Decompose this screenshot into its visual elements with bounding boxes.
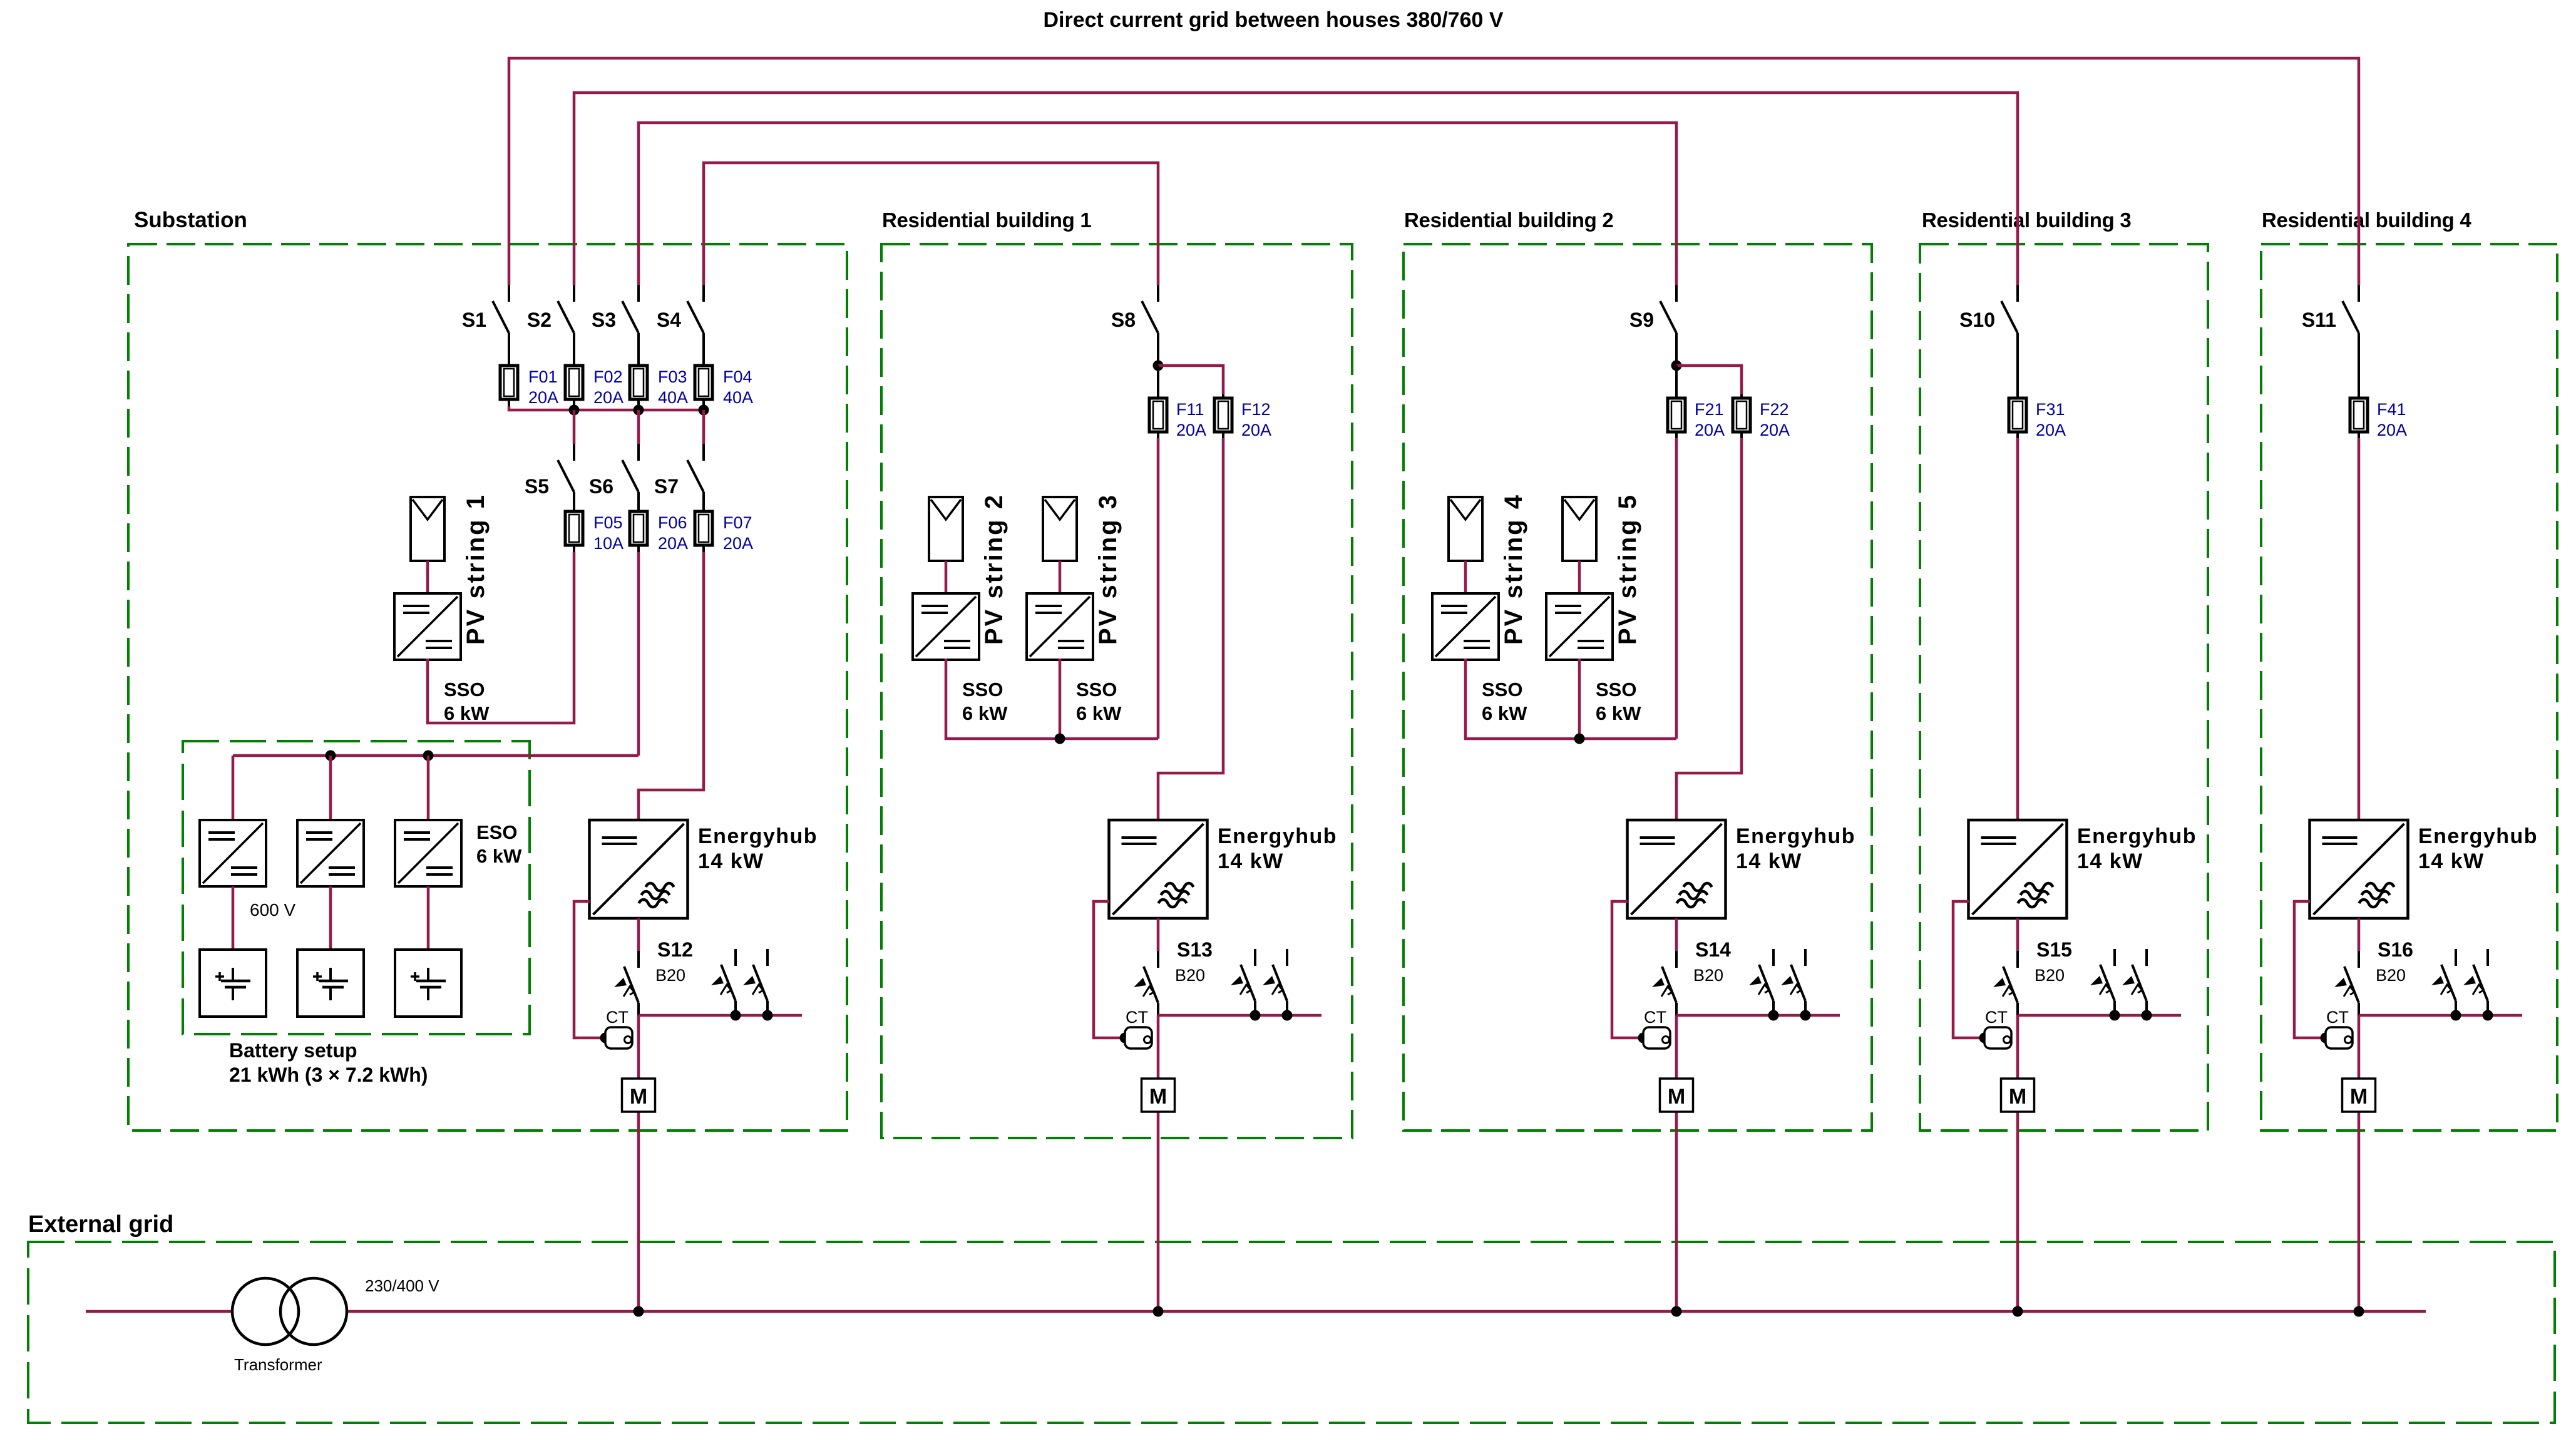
svg-text:Energyhub: Energyhub (698, 824, 818, 848)
svg-text:External grid: External grid (28, 1211, 173, 1238)
svg-text:S16: S16 (2378, 938, 2413, 961)
svg-text:Residential building 3: Residential building 3 (1922, 208, 2131, 232)
svg-text:40A: 40A (658, 388, 688, 407)
svg-text:CT: CT (2326, 1008, 2349, 1027)
svg-text:20A: 20A (2036, 421, 2066, 439)
svg-text:S7: S7 (654, 475, 679, 498)
svg-text:20A: 20A (2377, 421, 2407, 439)
svg-text:F22: F22 (1760, 400, 1789, 419)
svg-text:Energyhub: Energyhub (1218, 824, 1337, 848)
svg-text:20A: 20A (1241, 421, 1271, 439)
svg-text:Transformer: Transformer (234, 1355, 322, 1374)
svg-text:CT: CT (1644, 1008, 1666, 1027)
svg-text:Residential building 1: Residential building 1 (882, 208, 1091, 232)
svg-text:S5: S5 (525, 475, 549, 498)
svg-text:6 kW: 6 kW (1076, 702, 1122, 724)
svg-text:F04: F04 (723, 367, 752, 386)
svg-text:M: M (1668, 1085, 1685, 1109)
svg-text:B20: B20 (2376, 966, 2406, 985)
svg-text:F05: F05 (593, 513, 623, 532)
svg-text:ESO: ESO (476, 821, 517, 843)
svg-text:600 V: 600 V (250, 900, 295, 920)
svg-text:20A: 20A (528, 388, 558, 407)
svg-text:SSO: SSO (444, 679, 485, 700)
svg-text:F31: F31 (2036, 400, 2065, 419)
svg-text:S6: S6 (589, 475, 613, 498)
svg-text:F01: F01 (528, 367, 558, 386)
svg-text:Energyhub: Energyhub (1736, 824, 1855, 848)
svg-text:SSO: SSO (1596, 679, 1636, 700)
svg-text:14 kW: 14 kW (1736, 849, 1802, 873)
svg-text:Battery setup: Battery setup (229, 1039, 357, 1062)
svg-text:20A: 20A (723, 534, 753, 553)
svg-text:S10: S10 (1959, 309, 1995, 331)
svg-text:S8: S8 (1111, 309, 1136, 331)
svg-text:14 kW: 14 kW (698, 849, 764, 873)
svg-text:CT: CT (1985, 1008, 2008, 1027)
svg-text:M: M (1149, 1085, 1167, 1109)
svg-text:14 kW: 14 kW (2418, 849, 2485, 873)
svg-text:S11: S11 (2302, 309, 2336, 331)
svg-text:F02: F02 (593, 367, 623, 386)
svg-text:S1: S1 (462, 309, 486, 331)
svg-text:20A: 20A (658, 534, 688, 553)
svg-text:Energyhub: Energyhub (2418, 824, 2538, 848)
svg-text:6 kW: 6 kW (1596, 702, 1641, 724)
svg-text:6 kW: 6 kW (1482, 702, 1527, 724)
svg-text:F11: F11 (1176, 400, 1204, 419)
svg-text:6 kW: 6 kW (476, 845, 522, 867)
svg-text:S4: S4 (657, 309, 681, 331)
svg-text:M: M (630, 1085, 647, 1109)
svg-text:PV string 4: PV string 4 (1500, 493, 1527, 645)
svg-text:Direct current grid between ho: Direct current grid between houses 380/7… (1043, 8, 1503, 32)
svg-text:S9: S9 (1629, 309, 1654, 331)
svg-text:S12: S12 (657, 938, 693, 961)
svg-text:S14: S14 (1695, 938, 1731, 961)
svg-text:B20: B20 (655, 966, 685, 985)
svg-text:S15: S15 (2036, 938, 2072, 961)
svg-text:21 kWh (3 × 7.2 kWh): 21 kWh (3 × 7.2 kWh) (229, 1064, 428, 1086)
svg-text:6 kW: 6 kW (962, 702, 1008, 724)
svg-text:SSO: SSO (962, 679, 1003, 700)
svg-text:CT: CT (1126, 1008, 1148, 1027)
svg-text:S3: S3 (592, 309, 616, 331)
svg-text:B20: B20 (1175, 966, 1205, 985)
svg-text:F06: F06 (658, 513, 687, 532)
svg-text:F07: F07 (723, 513, 752, 532)
svg-text:M: M (2350, 1085, 2368, 1109)
svg-text:10A: 10A (593, 534, 623, 553)
svg-text:S13: S13 (1177, 938, 1213, 961)
svg-text:PV string 3: PV string 3 (1094, 493, 1122, 645)
svg-text:20A: 20A (1176, 421, 1206, 439)
svg-text:F03: F03 (658, 367, 687, 386)
svg-text:SSO: SSO (1076, 679, 1117, 700)
svg-text:230/400 V: 230/400 V (365, 1276, 439, 1295)
svg-text:6 kW: 6 kW (444, 702, 490, 724)
svg-text:Substation: Substation (134, 208, 247, 232)
svg-text:F41: F41 (2377, 400, 2406, 419)
svg-text:20A: 20A (1695, 421, 1725, 439)
svg-text:Residential building 2: Residential building 2 (1404, 208, 1613, 232)
svg-text:20A: 20A (1760, 421, 1790, 439)
svg-text:B20: B20 (1693, 966, 1723, 985)
svg-text:Residential building 4: Residential building 4 (2262, 208, 2471, 232)
svg-text:SSO: SSO (1482, 679, 1522, 700)
svg-text:F21: F21 (1695, 400, 1724, 419)
svg-text:PV string 2: PV string 2 (980, 493, 1008, 645)
svg-text:40A: 40A (723, 388, 753, 407)
svg-text:S2: S2 (527, 309, 552, 331)
svg-text:PV string 1: PV string 1 (462, 493, 490, 645)
svg-text:14 kW: 14 kW (1218, 849, 1284, 873)
svg-text:B20: B20 (2035, 966, 2065, 985)
svg-text:14 kW: 14 kW (2077, 849, 2143, 873)
svg-text:F12: F12 (1241, 400, 1271, 419)
svg-text:20A: 20A (593, 388, 623, 407)
svg-text:CT: CT (606, 1008, 629, 1027)
svg-text:M: M (2009, 1085, 2026, 1109)
svg-text:Energyhub: Energyhub (2077, 824, 2197, 848)
svg-text:PV string 5: PV string 5 (1614, 493, 1641, 645)
